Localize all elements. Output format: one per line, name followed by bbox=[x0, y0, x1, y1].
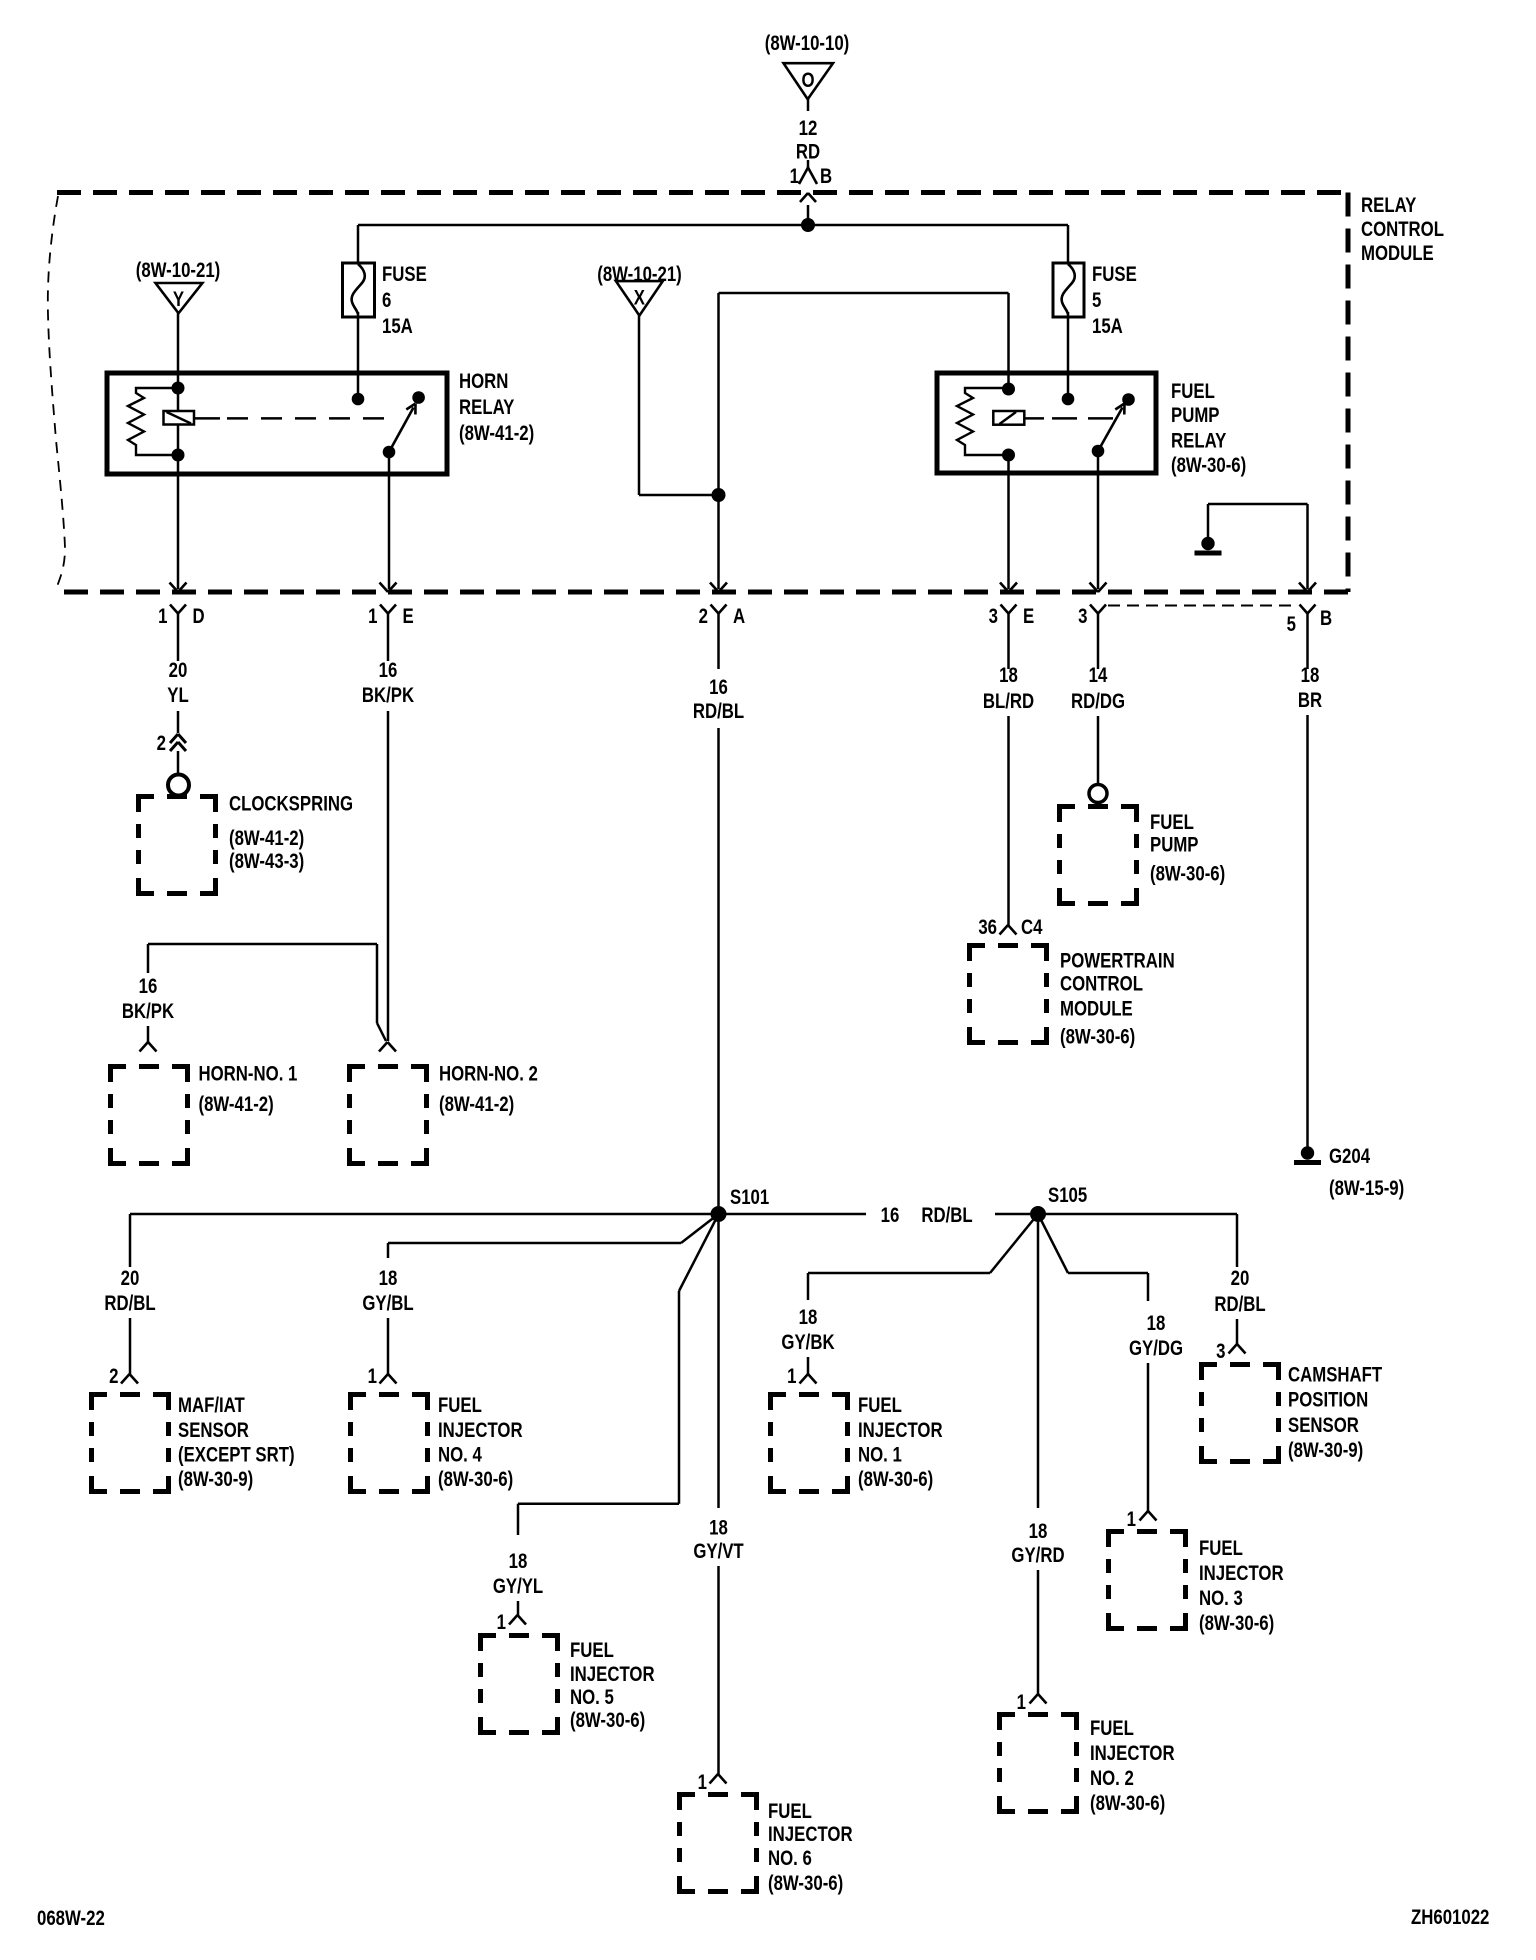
wire label 18 GY/BK bbox=[781, 1306, 834, 1354]
svg-text:GY/BL: GY/BL bbox=[362, 1292, 414, 1315]
svg-text:NO. 5: NO. 5 bbox=[570, 1686, 614, 1709]
wire 18 BR upper segment bbox=[1306, 650, 1309, 670]
wire label 18 GY/VT bbox=[693, 1517, 744, 1564]
relay control module boundary - torn left edge bbox=[48, 196, 65, 592]
relay control module boundary - bottom dashed edge bbox=[57, 590, 1348, 595]
wire - horn relay output to connector E bbox=[388, 452, 391, 589]
svg-text:3: 3 bbox=[1216, 1340, 1225, 1363]
svg-text:(8W-30-6): (8W-30-6) bbox=[1090, 1792, 1165, 1815]
svg-text:HORN: HORN bbox=[459, 370, 508, 393]
wire 16 BK/PK to horn no.2 bbox=[387, 711, 390, 1041]
horn relay label bbox=[459, 370, 534, 445]
svg-text:3: 3 bbox=[989, 605, 998, 628]
fuel injector no.1 label bbox=[858, 1394, 943, 1491]
connector pin 1/E at module boundary x=388 bbox=[368, 583, 414, 650]
wire label 20 RD/BL (camshaft) bbox=[1214, 1267, 1266, 1316]
fuse F5 label bbox=[1092, 263, 1137, 338]
wire label 16 RD/BL (splice tie) bbox=[881, 1204, 973, 1227]
svg-text:RELAY: RELAY bbox=[1361, 194, 1417, 217]
horn relay coil resistor bbox=[128, 388, 178, 455]
svg-text:E: E bbox=[403, 605, 414, 628]
fuel pump relay coil junction dots bbox=[1002, 383, 1015, 462]
svg-text:1: 1 bbox=[497, 1611, 507, 1634]
fuel pump relay fixed contact (from fuse 5) bbox=[1062, 393, 1075, 406]
svg-text:CAMSHAFT: CAMSHAFT bbox=[1288, 1364, 1383, 1387]
wire 16 RD/BL to splice S101 bbox=[717, 728, 720, 1206]
fuel pump relay actuation dashed link bbox=[1024, 417, 1116, 420]
svg-text:S101: S101 bbox=[730, 1186, 770, 1209]
svg-text:15A: 15A bbox=[1092, 315, 1123, 338]
wire - S105 down (GY/RD) upper bbox=[1037, 1222, 1040, 1508]
svg-text:NO. 1: NO. 1 bbox=[858, 1444, 902, 1467]
svg-text:MODULE: MODULE bbox=[1361, 242, 1434, 265]
svg-text:1: 1 bbox=[1127, 1508, 1137, 1531]
wire - module case ground link bbox=[1208, 504, 1308, 537]
wire label 18 BR bbox=[1298, 664, 1322, 712]
svg-text:INJECTOR: INJECTOR bbox=[1199, 1562, 1284, 1585]
feed label (8W-10-21) right bbox=[597, 263, 682, 286]
fuel pump relay switch arm bbox=[1098, 404, 1125, 452]
fuse F6 label bbox=[382, 263, 427, 338]
svg-text:(8W-30-6): (8W-30-6) bbox=[1171, 454, 1246, 477]
svg-text:ZH601022: ZH601022 bbox=[1411, 1906, 1489, 1929]
svg-text:3: 3 bbox=[1078, 605, 1087, 628]
power source symbol Y bbox=[156, 283, 203, 313]
wire 16 BK/PK upper segment bbox=[387, 650, 390, 662]
relay control module boundary - top dashed edge bbox=[57, 190, 1348, 195]
svg-text:15A: 15A bbox=[382, 315, 413, 338]
wire - injector 1 lower segment bbox=[807, 1357, 810, 1374]
terminal fork pin 1 at injector 2 bbox=[1017, 1691, 1047, 1714]
splice S101 bbox=[711, 1186, 770, 1222]
battery feed label (8W-10-10) bbox=[765, 32, 850, 55]
svg-text:BK/PK: BK/PK bbox=[122, 1000, 174, 1023]
svg-text:X: X bbox=[634, 287, 645, 310]
module name RELAY CONTROL MODULE bbox=[1361, 194, 1444, 265]
wire label 16 RD/BL bbox=[693, 676, 745, 723]
in-line connector pin 2 (double chevron) bbox=[157, 732, 186, 774]
feed label (8W-10-21) left bbox=[136, 259, 221, 282]
svg-text:POWERTRAIN: POWERTRAIN bbox=[1060, 950, 1175, 973]
svg-text:(8W-30-6): (8W-30-6) bbox=[1060, 1026, 1135, 1049]
svg-text:16: 16 bbox=[139, 975, 158, 998]
horn no.2 label bbox=[439, 1063, 538, 1117]
wire 20 YL upper segment bbox=[177, 650, 180, 662]
svg-text:CONTROL: CONTROL bbox=[1361, 218, 1444, 241]
wire - S101 to injector 5 branch bbox=[518, 1219, 716, 1535]
power source symbol O (fusible link O) bbox=[784, 63, 834, 99]
svg-text:14: 14 bbox=[1089, 664, 1108, 687]
svg-text:2: 2 bbox=[109, 1365, 118, 1388]
connector pin 3 at module boundary x=1098 bbox=[1078, 583, 1106, 650]
wire 16 RD/BL upper segment bbox=[717, 650, 720, 670]
svg-text:INJECTOR: INJECTOR bbox=[570, 1663, 655, 1686]
connector pin 5/B at module boundary x=1307.5 bbox=[1287, 583, 1332, 650]
wire label 20 RD/BL (MAF) bbox=[104, 1267, 156, 1315]
svg-text:O: O bbox=[801, 69, 814, 92]
svg-text:FUEL: FUEL bbox=[858, 1394, 902, 1417]
wire - injector 4 lower segment bbox=[387, 1318, 390, 1374]
svg-text:FUEL: FUEL bbox=[1150, 811, 1194, 834]
horn relay box bbox=[107, 373, 447, 474]
wire - injector 5 lower segment bbox=[517, 1601, 520, 1615]
camshaft position sensor label bbox=[1288, 1364, 1383, 1463]
svg-text:RD/BL: RD/BL bbox=[693, 700, 745, 723]
horn relay coil element bbox=[164, 411, 195, 425]
wire - fuel relay switch output to connector bbox=[1097, 451, 1100, 589]
svg-text:1: 1 bbox=[790, 165, 800, 188]
wire label 16 BK/PK (branch) bbox=[122, 975, 174, 1023]
svg-text:NO. 6: NO. 6 bbox=[768, 1847, 812, 1870]
wire label 12 RD bbox=[796, 117, 820, 164]
svg-text:(8W-15-9): (8W-15-9) bbox=[1329, 1177, 1404, 1200]
wire - S105 to injector 1 branch bbox=[808, 1214, 1038, 1300]
svg-text:(8W-41-2): (8W-41-2) bbox=[459, 422, 534, 445]
terminal fork pin 1 at injector 4 bbox=[368, 1365, 397, 1388]
clockspring label bbox=[229, 793, 353, 874]
svg-text:36: 36 bbox=[978, 916, 997, 939]
wire - branch lower segment bbox=[147, 1026, 150, 1042]
fuel injector no.3 label bbox=[1199, 1537, 1284, 1635]
wire label 14 RD/DG bbox=[1071, 664, 1125, 713]
svg-text:BK/PK: BK/PK bbox=[362, 684, 414, 707]
svg-text:18: 18 bbox=[1301, 664, 1320, 687]
wire 14 RD/DG to fuel pump bbox=[1097, 716, 1100, 784]
terminal fork pin 1 at injector 6 bbox=[698, 1771, 727, 1794]
svg-text:1: 1 bbox=[1017, 1691, 1027, 1714]
svg-text:(8W-30-6): (8W-30-6) bbox=[858, 1468, 933, 1491]
fuel injector no.6 box bbox=[680, 1795, 757, 1892]
fuel injector no.3 box bbox=[1109, 1532, 1186, 1629]
svg-text:B: B bbox=[1320, 607, 1332, 630]
svg-text:(8W-30-9): (8W-30-9) bbox=[178, 1468, 253, 1491]
wire - injector 6 lower segment bbox=[717, 1566, 720, 1774]
svg-text:6: 6 bbox=[382, 289, 391, 312]
node - X/A junction dot bbox=[712, 488, 726, 502]
svg-text:Y: Y bbox=[173, 288, 184, 311]
svg-text:(8W-41-2): (8W-41-2) bbox=[199, 1093, 274, 1116]
svg-text:POSITION: POSITION bbox=[1288, 1389, 1368, 1412]
svg-text:HORN-NO. 2: HORN-NO. 2 bbox=[439, 1063, 538, 1086]
terminal fork at horn no.1 bbox=[140, 1042, 157, 1052]
svg-text:18: 18 bbox=[1029, 1520, 1048, 1543]
sheet number 068W-22 bbox=[37, 1907, 105, 1930]
fuel pump pigtail ring bbox=[1089, 785, 1107, 803]
svg-text:2: 2 bbox=[699, 605, 708, 628]
svg-text:(8W-30-6): (8W-30-6) bbox=[438, 1468, 513, 1491]
wire - S105 to injector 3 branch bbox=[1038, 1214, 1148, 1301]
svg-text:(8W-30-9): (8W-30-9) bbox=[1288, 1439, 1363, 1462]
svg-text:12: 12 bbox=[799, 117, 818, 140]
svg-text:(8W-10-10): (8W-10-10) bbox=[765, 32, 850, 55]
fuse F5 symbol bbox=[1053, 263, 1084, 317]
wire - node up and across to fuel relay coil bbox=[719, 293, 1009, 495]
svg-text:(EXCEPT SRT): (EXCEPT SRT) bbox=[178, 1444, 295, 1467]
powertrain control module label bbox=[1060, 950, 1175, 1049]
horn relay NO contact bbox=[412, 391, 425, 404]
horn no.2 component box bbox=[350, 1067, 427, 1164]
wire label 18 GY/YL bbox=[493, 1550, 544, 1598]
connector pin 2/A at module boundary x=718.5 bbox=[699, 583, 746, 650]
svg-text:INJECTOR: INJECTOR bbox=[858, 1419, 943, 1442]
svg-text:GY/VT: GY/VT bbox=[693, 1540, 744, 1563]
terminal fork pin 1 cavity B (top feed) bbox=[790, 160, 832, 189]
horn relay fixed contact (from fuse 6) bbox=[352, 393, 365, 406]
svg-text:18: 18 bbox=[1147, 1312, 1166, 1335]
fuel pump relay common pivot dot bbox=[1092, 445, 1105, 458]
svg-text:PUMP: PUMP bbox=[1150, 834, 1199, 857]
drawing id ZH601022 bbox=[1411, 1906, 1489, 1929]
connector pin 3/E at module boundary x=1008.5 bbox=[989, 583, 1035, 650]
wire 18 BR to ground G204 bbox=[1306, 715, 1309, 1147]
wire - X branch to node bbox=[639, 494, 719, 497]
svg-text:BL/RD: BL/RD bbox=[983, 690, 1034, 713]
wire 18 BL/RD upper segment bbox=[1007, 650, 1010, 670]
ground G204 label bbox=[1329, 1145, 1404, 1200]
fuel injector no.4 label bbox=[438, 1394, 523, 1491]
fuse F6 symbol bbox=[343, 263, 375, 317]
svg-text:RELAY: RELAY bbox=[1171, 430, 1227, 453]
wire - X triangle down bbox=[638, 316, 641, 495]
wire label 18 GY/BL bbox=[362, 1267, 414, 1315]
wire - S101 down (GY/VT) upper bbox=[717, 1222, 720, 1508]
fuel injector no.2 box bbox=[1000, 1715, 1077, 1812]
wire - branch down to horn no.1 bbox=[147, 944, 150, 973]
svg-text:20: 20 bbox=[169, 659, 188, 682]
svg-text:16: 16 bbox=[709, 676, 728, 699]
ground G204 symbol bbox=[1294, 1146, 1321, 1162]
svg-text:GY/DG: GY/DG bbox=[1129, 1337, 1183, 1360]
splice S105 bbox=[1030, 1184, 1088, 1222]
svg-text:(8W-30-6): (8W-30-6) bbox=[570, 1709, 645, 1732]
MAF/IAT sensor label bbox=[178, 1394, 295, 1491]
wire - S105 to camshaft sensor branch bbox=[1038, 1214, 1237, 1267]
svg-text:(8W-41-2): (8W-41-2) bbox=[229, 827, 304, 850]
svg-text:RD/BL: RD/BL bbox=[1214, 1293, 1266, 1316]
svg-text:(8W-30-6): (8W-30-6) bbox=[768, 1872, 843, 1895]
svg-text:(8W-41-2): (8W-41-2) bbox=[439, 1093, 514, 1116]
fuel pump relay label bbox=[1171, 380, 1246, 477]
terminal fork pin 1 at injector 3 bbox=[1127, 1508, 1157, 1531]
svg-text:1: 1 bbox=[698, 1771, 708, 1794]
in-line connector dashed tie (pins 3 and B same connector) bbox=[1108, 605, 1296, 607]
wire - camshaft lower segment bbox=[1236, 1319, 1239, 1344]
fuel pump label bbox=[1150, 811, 1225, 886]
clockspring pigtail ring bbox=[168, 775, 189, 796]
svg-text:RELAY: RELAY bbox=[459, 396, 515, 419]
svg-text:(8W-43-3): (8W-43-3) bbox=[229, 850, 304, 873]
terminal fork pin 2 at MAF bbox=[109, 1365, 138, 1388]
terminal fork pin 1 at injector 5 bbox=[497, 1611, 526, 1634]
horn relay actuation dashed link bbox=[194, 417, 385, 420]
svg-text:(8W-10-21): (8W-10-21) bbox=[597, 263, 682, 286]
fuel injector no.5 label bbox=[570, 1639, 655, 1732]
wire - Y triangle to horn relay coil and out to pin D bbox=[177, 313, 180, 589]
svg-text:INJECTOR: INJECTOR bbox=[438, 1419, 523, 1442]
wire 18 BL/RD to PCM bbox=[1007, 716, 1010, 925]
svg-text:SENSOR: SENSOR bbox=[178, 1419, 249, 1442]
wire label 18 GY/RD bbox=[1011, 1520, 1064, 1567]
svg-text:1: 1 bbox=[787, 1365, 797, 1388]
svg-text:CONTROL: CONTROL bbox=[1060, 973, 1143, 996]
fuel injector no.5 box bbox=[481, 1636, 558, 1733]
svg-text:20: 20 bbox=[121, 1267, 140, 1290]
fuel injector no.4 box bbox=[351, 1395, 428, 1492]
relay control module boundary - right dashed edge bbox=[1346, 193, 1351, 593]
terminal fork pin 1 at injector 1 bbox=[787, 1365, 816, 1388]
svg-text:A: A bbox=[733, 605, 745, 628]
node - power bus junction dot bbox=[801, 218, 815, 232]
wire - horn branch splice run bbox=[148, 944, 386, 1041]
fuel injector no.2 label bbox=[1090, 1717, 1175, 1815]
fuel pump relay coil resistor bbox=[957, 388, 1009, 455]
fuel pump relay box bbox=[937, 373, 1156, 473]
svg-text:INJECTOR: INJECTOR bbox=[768, 1823, 853, 1846]
svg-text:G204: G204 bbox=[1329, 1145, 1370, 1168]
svg-text:E: E bbox=[1023, 605, 1034, 628]
svg-text:INJECTOR: INJECTOR bbox=[1090, 1742, 1175, 1765]
svg-text:068W-22: 068W-22 bbox=[37, 1907, 105, 1930]
svg-text:RD/BL: RD/BL bbox=[104, 1292, 156, 1315]
svg-text:18: 18 bbox=[709, 1517, 728, 1540]
terminal fork pin 36 C4 at PCM bbox=[978, 916, 1043, 939]
wire - node down to connector A bbox=[717, 495, 720, 589]
fuel pump component box bbox=[1060, 807, 1137, 904]
svg-text:RD/DG: RD/DG bbox=[1071, 690, 1125, 713]
svg-text:FUEL: FUEL bbox=[570, 1639, 614, 1662]
wire - module pin B to boundary bbox=[1306, 504, 1309, 589]
svg-text:16: 16 bbox=[881, 1204, 900, 1227]
svg-text:FUEL: FUEL bbox=[438, 1394, 482, 1417]
wire - injector 3 lower segment bbox=[1147, 1363, 1150, 1511]
svg-text:MAF/IAT: MAF/IAT bbox=[178, 1394, 245, 1417]
svg-text:FUEL: FUEL bbox=[1090, 1717, 1134, 1740]
svg-text:1: 1 bbox=[158, 605, 168, 628]
terminal fork at horn no.2 bbox=[379, 1042, 396, 1052]
wire 14 RD/DG upper segment bbox=[1097, 650, 1100, 670]
svg-text:NO. 4: NO. 4 bbox=[438, 1444, 482, 1467]
svg-text:YL: YL bbox=[167, 684, 189, 707]
svg-text:RD/BL: RD/BL bbox=[921, 1204, 973, 1227]
power source symbol X bbox=[616, 281, 663, 316]
svg-text:18: 18 bbox=[509, 1550, 528, 1573]
svg-text:S105: S105 bbox=[1048, 1184, 1088, 1207]
wire label 18 BL/RD bbox=[983, 664, 1034, 713]
svg-text:B: B bbox=[820, 165, 832, 188]
wire label 18 GY/DG bbox=[1129, 1312, 1183, 1360]
fuel pump relay coil element bbox=[993, 411, 1024, 425]
horn relay switch arm bbox=[389, 404, 416, 453]
wire - S101 to injector 4 branch bbox=[388, 1214, 719, 1258]
wire - bus to fuse 6 to horn relay contact bbox=[357, 225, 360, 399]
svg-text:5: 5 bbox=[1287, 613, 1297, 636]
wire stub from O symbol bbox=[807, 99, 810, 111]
svg-text:16: 16 bbox=[379, 659, 398, 682]
module case ground symbol bbox=[1195, 537, 1222, 553]
horn no.1 component box bbox=[111, 1067, 188, 1164]
fuel injector no.1 box bbox=[771, 1395, 848, 1492]
wire 20 YL lower segment bbox=[177, 711, 180, 733]
wire - injector 2 lower segment bbox=[1037, 1570, 1040, 1694]
svg-text:MODULE: MODULE bbox=[1060, 998, 1133, 1021]
svg-text:CLOCKSPRING: CLOCKSPRING bbox=[229, 793, 353, 816]
svg-text:1: 1 bbox=[368, 1365, 378, 1388]
svg-text:20: 20 bbox=[1231, 1267, 1250, 1290]
svg-text:(8W-30-6): (8W-30-6) bbox=[1199, 1612, 1274, 1635]
svg-text:FUEL: FUEL bbox=[1199, 1537, 1243, 1560]
svg-text:FUSE: FUSE bbox=[382, 263, 427, 286]
svg-text:SENSOR: SENSOR bbox=[1288, 1414, 1359, 1437]
svg-text:FUSE: FUSE bbox=[1092, 263, 1137, 286]
svg-text:18: 18 bbox=[379, 1267, 398, 1290]
wire label 16 BK/PK bbox=[362, 659, 414, 707]
wire - fuel relay coil output to connector E bbox=[1007, 455, 1010, 589]
svg-text:HORN-NO. 1: HORN-NO. 1 bbox=[199, 1063, 298, 1086]
svg-text:D: D bbox=[193, 605, 205, 628]
wire - bus to fuse 5 to fuel pump relay contact bbox=[1067, 225, 1070, 399]
fuel pump relay NO contact bbox=[1122, 393, 1135, 406]
fuel injector no.6 label bbox=[768, 1800, 853, 1895]
MAF/IAT sensor box bbox=[92, 1395, 169, 1492]
wire - MAF lower segment bbox=[129, 1318, 132, 1374]
connector pin 1/D at module boundary x=178 bbox=[158, 583, 204, 650]
powertrain control module box bbox=[970, 946, 1047, 1043]
wire - S101 to S105 (16 RD/BL) bbox=[726, 1213, 1030, 1216]
svg-text:(8W-10-21): (8W-10-21) bbox=[136, 259, 221, 282]
svg-text:PUMP: PUMP bbox=[1171, 404, 1220, 427]
horn relay common pivot dot bbox=[383, 446, 396, 459]
wire label 20 YL bbox=[167, 659, 189, 707]
clockspring component box bbox=[139, 797, 216, 894]
svg-text:C4: C4 bbox=[1021, 916, 1043, 939]
svg-text:1: 1 bbox=[368, 605, 378, 628]
svg-text:2: 2 bbox=[157, 732, 166, 755]
horn relay coil junction dots bbox=[172, 382, 185, 462]
svg-text:FUEL: FUEL bbox=[1171, 380, 1215, 403]
terminal fork pin 3 at camshaft sensor bbox=[1216, 1340, 1245, 1363]
horn no.1 label bbox=[199, 1063, 298, 1117]
svg-text:5: 5 bbox=[1092, 289, 1102, 312]
svg-text:18: 18 bbox=[999, 664, 1018, 687]
svg-text:FUEL: FUEL bbox=[768, 1800, 812, 1823]
svg-text:18: 18 bbox=[799, 1306, 818, 1329]
svg-text:NO. 3: NO. 3 bbox=[1199, 1587, 1243, 1610]
svg-text:GY/RD: GY/RD bbox=[1011, 1544, 1064, 1567]
wire - S101 to MAF branch bbox=[130, 1214, 719, 1267]
svg-text:BR: BR bbox=[1298, 689, 1322, 712]
up-arrow into module at B bbox=[800, 193, 816, 225]
svg-text:GY/YL: GY/YL bbox=[493, 1575, 544, 1598]
wire - top power bus bbox=[358, 224, 1068, 227]
svg-text:GY/BK: GY/BK bbox=[781, 1331, 834, 1354]
svg-text:NO. 2: NO. 2 bbox=[1090, 1767, 1134, 1790]
svg-text:(8W-30-6): (8W-30-6) bbox=[1150, 863, 1225, 886]
camshaft position sensor box bbox=[1202, 1365, 1279, 1462]
